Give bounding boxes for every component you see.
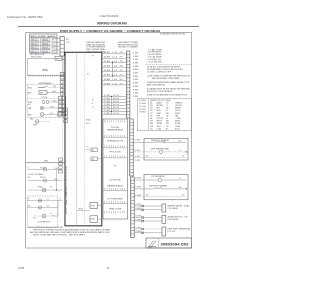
board test point TP1 bbox=[91, 148, 97, 152]
svg-text:OB: OB bbox=[166, 126, 168, 128]
wire group B board-to-harness bbox=[102, 96, 127, 98]
svg-text:2 BU: 2 BU bbox=[53, 100, 56, 102]
user interface box P50 bbox=[28, 59, 64, 76]
svg-text:4 BK: 4 BK bbox=[133, 86, 139, 88]
board left pins J7 bbox=[58, 96, 62, 99]
svg-text:N 2-6: N 2-6 bbox=[113, 107, 119, 109]
right divider dashed bbox=[146, 64, 192, 66]
svg-text:P50: P50 bbox=[56, 58, 59, 60]
svg-text:FF DOOR: FF DOOR bbox=[110, 151, 122, 153]
svg-text:4 BK: 4 BK bbox=[133, 96, 139, 98]
svg-text:4 BK: 4 BK bbox=[133, 69, 139, 71]
vertical connect wire bbox=[56, 170, 58, 190]
svg-text:4 BK: 4 BK bbox=[133, 66, 139, 68]
svg-text:VT: VT bbox=[166, 110, 168, 112]
svg-text:GROUND TO CABINET: GROUND TO CABINET bbox=[118, 46, 138, 49]
svg-text:12 BU: 12 BU bbox=[104, 107, 110, 109]
svg-text:RD-WH: RD-WH bbox=[175, 123, 181, 125]
junction dot bbox=[56, 189, 57, 190]
dispenser edge connector bbox=[58, 112, 63, 117]
svg-text:WHITE: WHITE bbox=[175, 113, 180, 115]
svg-text:L57-21F: L57-21F bbox=[168, 231, 176, 233]
svg-text:L1-4: L1-4 bbox=[112, 52, 117, 54]
svg-text:4 BK: 4 BK bbox=[133, 93, 139, 95]
table column divider bbox=[40, 38, 42, 53]
door harness box bbox=[103, 119, 128, 219]
svg-text:N 2-6: N 2-6 bbox=[113, 98, 119, 100]
svg-text:6 WH: 6 WH bbox=[135, 187, 141, 189]
board bottom stub wire bbox=[77, 209, 91, 211]
board test point TP2 bbox=[91, 157, 97, 161]
svg-text:L1: L1 bbox=[92, 107, 94, 109]
svg-text:L1-4: L1-4 bbox=[112, 83, 117, 85]
overload relay bbox=[34, 215, 52, 217]
svg-text:ELECTRIC CODE NFPA 70: ELECTRIC CODE NFPA 70 bbox=[147, 90, 172, 93]
svg-text:TP1: TP1 bbox=[92, 150, 95, 152]
svg-text:HARNESS ASSY: HARNESS ASSY bbox=[107, 184, 124, 187]
svg-text:DISPENSER: DISPENSER bbox=[39, 83, 53, 85]
color legend table bbox=[137, 99, 191, 131]
door ticks row 2 bbox=[104, 135, 106, 137]
ff row1 wire bbox=[133, 179, 158, 181]
svg-text:DOOR SW: DOOR SW bbox=[110, 179, 122, 181]
svg-text:P12: P12 bbox=[66, 39, 69, 41]
door boundary dashed wire bbox=[62, 59, 64, 163]
svg-text:WH-BK: WH-BK bbox=[175, 121, 181, 123]
svg-text:BU-YL: BU-YL bbox=[175, 128, 180, 130]
svg-text:L1-4: L1-4 bbox=[112, 70, 117, 72]
svg-text:4 BK: 4 BK bbox=[133, 89, 139, 91]
svg-text:12 GN: 12 GN bbox=[139, 106, 146, 108]
door sw inline connector bbox=[142, 217, 144, 219]
wire branch vertical B bbox=[111, 97, 113, 115]
svg-text:GY 2: GY 2 bbox=[51, 47, 55, 49]
P9 divider wire bbox=[26, 162, 65, 164]
harness connector ladder top bbox=[126, 51, 130, 118]
svg-text:30803094 D02: 30803094 D02 bbox=[161, 243, 189, 247]
door ticks row 6 bbox=[104, 201, 106, 203]
svg-text:GY 2: GY 2 bbox=[51, 40, 55, 42]
svg-text:GREEN: GREEN bbox=[175, 108, 182, 110]
board left pins J9 bbox=[59, 158, 62, 161]
svg-text:12 BU: 12 BU bbox=[104, 101, 110, 103]
door ticks row 7 bbox=[104, 211, 106, 213]
svg-text:BK 14: BK 14 bbox=[32, 51, 37, 53]
def therm bar bbox=[162, 227, 166, 236]
svg-text:WH 16: WH 16 bbox=[43, 40, 49, 42]
P50 top small box bbox=[55, 56, 62, 60]
svg-text:3 BK: 3 BK bbox=[53, 86, 56, 88]
svg-text:4 BK: 4 BK bbox=[133, 83, 139, 85]
svg-text:GY 2: GY 2 bbox=[51, 43, 55, 45]
svg-text:N 2-6: N 2-6 bbox=[113, 101, 119, 103]
header rule bbox=[18, 26, 199, 28]
svg-text:COMPRESSOR: COMPRESSOR bbox=[38, 222, 52, 224]
svg-text:K1: K1 bbox=[87, 74, 89, 76]
terminal strip ticks bbox=[27, 75, 29, 77]
svg-text:P2: P2 bbox=[92, 56, 94, 58]
svg-text:12 BU: 12 BU bbox=[104, 113, 110, 115]
svg-text:TP2: TP2 bbox=[92, 159, 95, 161]
door ticks row 5 bbox=[104, 188, 106, 190]
svg-text:PTC: PTC bbox=[33, 218, 36, 220]
svg-text:L1-4: L1-4 bbox=[112, 57, 117, 59]
svg-text:YL: YL bbox=[166, 105, 168, 107]
svg-text:CLOSED, CONTROLS OFF: CLOSED, CONTROLS OFF bbox=[147, 72, 172, 74]
board inner divider wire bbox=[84, 52, 86, 226]
ff row3 wire bbox=[133, 196, 186, 198]
board connector P04B bbox=[90, 216, 98, 223]
door ticks row 4 bbox=[104, 155, 106, 157]
harness connector ladder mid bbox=[130, 119, 134, 176]
board relay box P04A bbox=[90, 203, 98, 209]
svg-text:T 2: T 2 bbox=[179, 178, 181, 180]
svg-text:LB: LB bbox=[150, 118, 152, 120]
svg-text:SEAL TUBE: SEAL TUBE bbox=[109, 207, 122, 210]
water valve wires bbox=[134, 205, 162, 207]
svg-text:11-12 RD SW: 11-12 RD SW bbox=[148, 61, 163, 63]
svg-text:1PT 90: 1PT 90 bbox=[78, 209, 83, 211]
svg-text:PWR SUPPLY :: CONNECT AS SHOWN: PWR SUPPLY :: CONNECT AS SHOWN :: CONNEC… bbox=[60, 29, 160, 33]
svg-text:WIRE COLOR CODE: WIRE COLOR CODE bbox=[150, 100, 171, 102]
svg-text:CONNECTOR J1-B 12V: CONNECTOR J1-B 12V bbox=[66, 165, 68, 196]
svg-text:12 BU: 12 BU bbox=[104, 95, 110, 97]
svg-text:K3: K3 bbox=[87, 147, 89, 149]
svg-text:4 BK: 4 BK bbox=[133, 52, 139, 54]
svg-text:(P50): (P50) bbox=[42, 69, 48, 72]
svg-text:HARNESS ASSY: HARNESS ASSY bbox=[107, 129, 124, 132]
svg-text:YELLOW: YELLOW bbox=[175, 105, 182, 107]
svg-text:N 2-6: N 2-6 bbox=[113, 113, 119, 115]
wire branch vertical bbox=[112, 63, 114, 76]
legend divider bbox=[148, 99, 150, 131]
svg-text:BK 14: BK 14 bbox=[32, 40, 37, 42]
svg-text:WH 16: WH 16 bbox=[43, 51, 49, 53]
svg-text:6 WH: 6 WH bbox=[135, 204, 141, 206]
svg-text:WB: WB bbox=[166, 121, 169, 123]
title block bbox=[146, 238, 192, 248]
def therm inline connector bbox=[142, 228, 144, 230]
wire gauge table bbox=[30, 34, 58, 53]
board inside pins J10 bbox=[64, 108, 68, 111]
svg-text:WIRING DIAGRAM: WIRING DIAGRAM bbox=[97, 22, 127, 26]
svg-text:LT: LT bbox=[28, 167, 30, 169]
wire group A board-to-harness bbox=[102, 53, 127, 55]
svg-text:BK 14: BK 14 bbox=[32, 47, 37, 49]
svg-text:GN: GN bbox=[146, 156, 148, 158]
svg-text:SW2: SW2 bbox=[40, 92, 43, 94]
door sw wires bbox=[134, 216, 162, 218]
water valve inline connector bbox=[142, 205, 144, 207]
svg-text:DISPENSER: DISPENSER bbox=[168, 219, 180, 221]
svg-text:12 BU: 12 BU bbox=[104, 98, 110, 100]
svg-text:L1-4: L1-4 bbox=[112, 66, 117, 68]
svg-text:N 2-6: N 2-6 bbox=[113, 104, 119, 106]
door sw bar bbox=[162, 215, 166, 223]
svg-text:P7: P7 bbox=[92, 100, 94, 102]
door box top ticks bbox=[104, 120, 106, 122]
diagram outer border bbox=[26, 33, 192, 249]
defrost heater R1 bbox=[155, 141, 165, 142]
door ticks row 3 bbox=[104, 145, 106, 147]
svg-text:GW: GW bbox=[150, 126, 153, 128]
svg-text:72: 72 bbox=[107, 266, 110, 270]
evap row2 wire bbox=[133, 151, 159, 153]
svg-text:BOTTOM HINGE: BOTTOM HINGE bbox=[108, 198, 124, 200]
svg-text:LT BLUE: LT BLUE bbox=[157, 118, 163, 120]
title logo bbox=[148, 241, 157, 247]
svg-text:6 WH: 6 WH bbox=[135, 178, 141, 180]
svg-text:6 WH: 6 WH bbox=[135, 195, 141, 197]
connector P12 ladder bbox=[60, 37, 64, 57]
fresh food box bbox=[144, 174, 188, 200]
svg-text:LT GRN: LT GRN bbox=[175, 118, 182, 120]
compressor compartment dashed box bbox=[28, 196, 58, 228]
compressor right wire bbox=[57, 201, 59, 217]
svg-text:e17B: e17B bbox=[18, 266, 24, 270]
svg-text:4) SEE TECH DATA SHEET FOR DIA: 4) SEE TECH DATA SHEET FOR DIAGNOSTICS bbox=[147, 93, 188, 96]
svg-text:WH 16: WH 16 bbox=[43, 47, 49, 49]
svg-text:C 1: C 1 bbox=[47, 199, 50, 201]
harness connector ladder bottom bbox=[131, 177, 135, 237]
svg-text:AND INSULATION: AND INSULATION bbox=[147, 84, 166, 87]
main control board U1 bbox=[65, 52, 102, 226]
svg-text:18 GA WIRE UNLESS NOTED: 18 GA WIRE UNLESS NOTED bbox=[160, 33, 187, 36]
svg-text:BROWN: BROWN bbox=[157, 105, 164, 107]
svg-text:DOOR: DOOR bbox=[111, 127, 120, 129]
svg-text:BLUE: BLUE bbox=[157, 110, 161, 112]
svg-text:18 BU: 18 BU bbox=[139, 112, 146, 114]
svg-text:1 WH: 1 WH bbox=[52, 91, 56, 93]
table header bbox=[30, 37, 58, 39]
table rows bbox=[30, 40, 58, 42]
svg-text:GN: GN bbox=[146, 195, 148, 197]
svg-text:BK-WH: BK-WH bbox=[157, 123, 163, 125]
svg-text:OL: OL bbox=[50, 213, 52, 215]
svg-text:BK 14: BK 14 bbox=[32, 43, 37, 45]
svg-text:GN-YL: GN-YL bbox=[157, 126, 162, 128]
svg-text:4 BK: 4 BK bbox=[133, 76, 139, 78]
board left pins J7b bbox=[62, 96, 65, 99]
board left pins J6 bbox=[60, 72, 64, 75]
svg-text:AWG WIRE TABLE: AWG WIRE TABLE bbox=[31, 35, 57, 38]
svg-text:4 BK: 4 BK bbox=[133, 79, 139, 81]
svg-text:WH-RD: WH-RD bbox=[157, 121, 163, 123]
svg-text:WH 16: WH 16 bbox=[43, 43, 49, 45]
svg-text:FREEZER DOOR: FREEZER DOOR bbox=[107, 141, 124, 143]
wire P04B to ladder bbox=[98, 218, 102, 220]
svg-text:VIOLET: VIOLET bbox=[175, 110, 181, 112]
svg-text:RLY 2: RLY 2 bbox=[86, 123, 90, 125]
dispenser dashed box bbox=[28, 85, 63, 118]
board inner rail wire bbox=[76, 52, 78, 226]
svg-text:4 BK: 4 BK bbox=[133, 59, 139, 61]
svg-text:N 2-6: N 2-6 bbox=[113, 95, 119, 97]
svg-text:(P9): (P9) bbox=[44, 161, 48, 163]
svg-text:4 BK: 4 BK bbox=[133, 73, 139, 75]
ff heater symbol bbox=[154, 188, 162, 189]
svg-text:4 BK: 4 BK bbox=[133, 62, 139, 64]
wire fan to P12 bbox=[52, 37, 60, 39]
def therm wires bbox=[134, 228, 162, 230]
svg-text:14 WH: 14 WH bbox=[139, 103, 146, 105]
svg-text:L1-4: L1-4 bbox=[112, 79, 117, 81]
svg-text:N 2-6: N 2-6 bbox=[113, 110, 119, 112]
svg-text:6 GY: 6 GY bbox=[50, 113, 53, 115]
svg-text:YB: YB bbox=[150, 128, 152, 130]
svg-text:SW 1: SW 1 bbox=[28, 87, 32, 89]
evaporator box bbox=[144, 138, 188, 160]
terminal strip line bbox=[28, 75, 65, 77]
wire P04A to ladder bbox=[98, 205, 102, 207]
svg-text:Publication No. 0906T 95A: Publication No. 0906T 95A bbox=[7, 15, 43, 19]
svg-text:12 BU: 12 BU bbox=[104, 104, 110, 106]
svg-text:SOL: SOL bbox=[28, 104, 31, 106]
ff row2 wire bbox=[133, 188, 154, 190]
title block divider bbox=[158, 238, 160, 248]
svg-text:REPLACING ANY COMPONENT: REPLACING ANY COMPONENT bbox=[152, 77, 181, 80]
svg-text:P04B: P04B bbox=[91, 219, 95, 221]
svg-text:12 BU: 12 BU bbox=[104, 110, 110, 112]
svg-text:WIRE COLORS MAY VARY BY MODEL: WIRE COLORS MAY VARY BY MODEL - SEE TECH… bbox=[33, 233, 86, 236]
svg-text:WH-6 NEU: WH-6 NEU bbox=[31, 56, 43, 58]
evap row1 wire bbox=[133, 142, 155, 144]
svg-text:FGHT2146KF: FGHT2146KF bbox=[100, 14, 119, 18]
P12 pigtail wire bbox=[62, 56, 66, 61]
evap row3 wire bbox=[133, 157, 186, 159]
svg-text:3 BN: 3 BN bbox=[54, 179, 57, 181]
svg-text:4 BK: 4 BK bbox=[133, 56, 139, 58]
svg-text:GY 2: GY 2 bbox=[51, 51, 55, 53]
water valve bar bbox=[162, 204, 166, 212]
svg-text:FF SENSOR: FF SENSOR bbox=[152, 176, 166, 178]
svg-text:L 4: L 4 bbox=[179, 150, 181, 152]
